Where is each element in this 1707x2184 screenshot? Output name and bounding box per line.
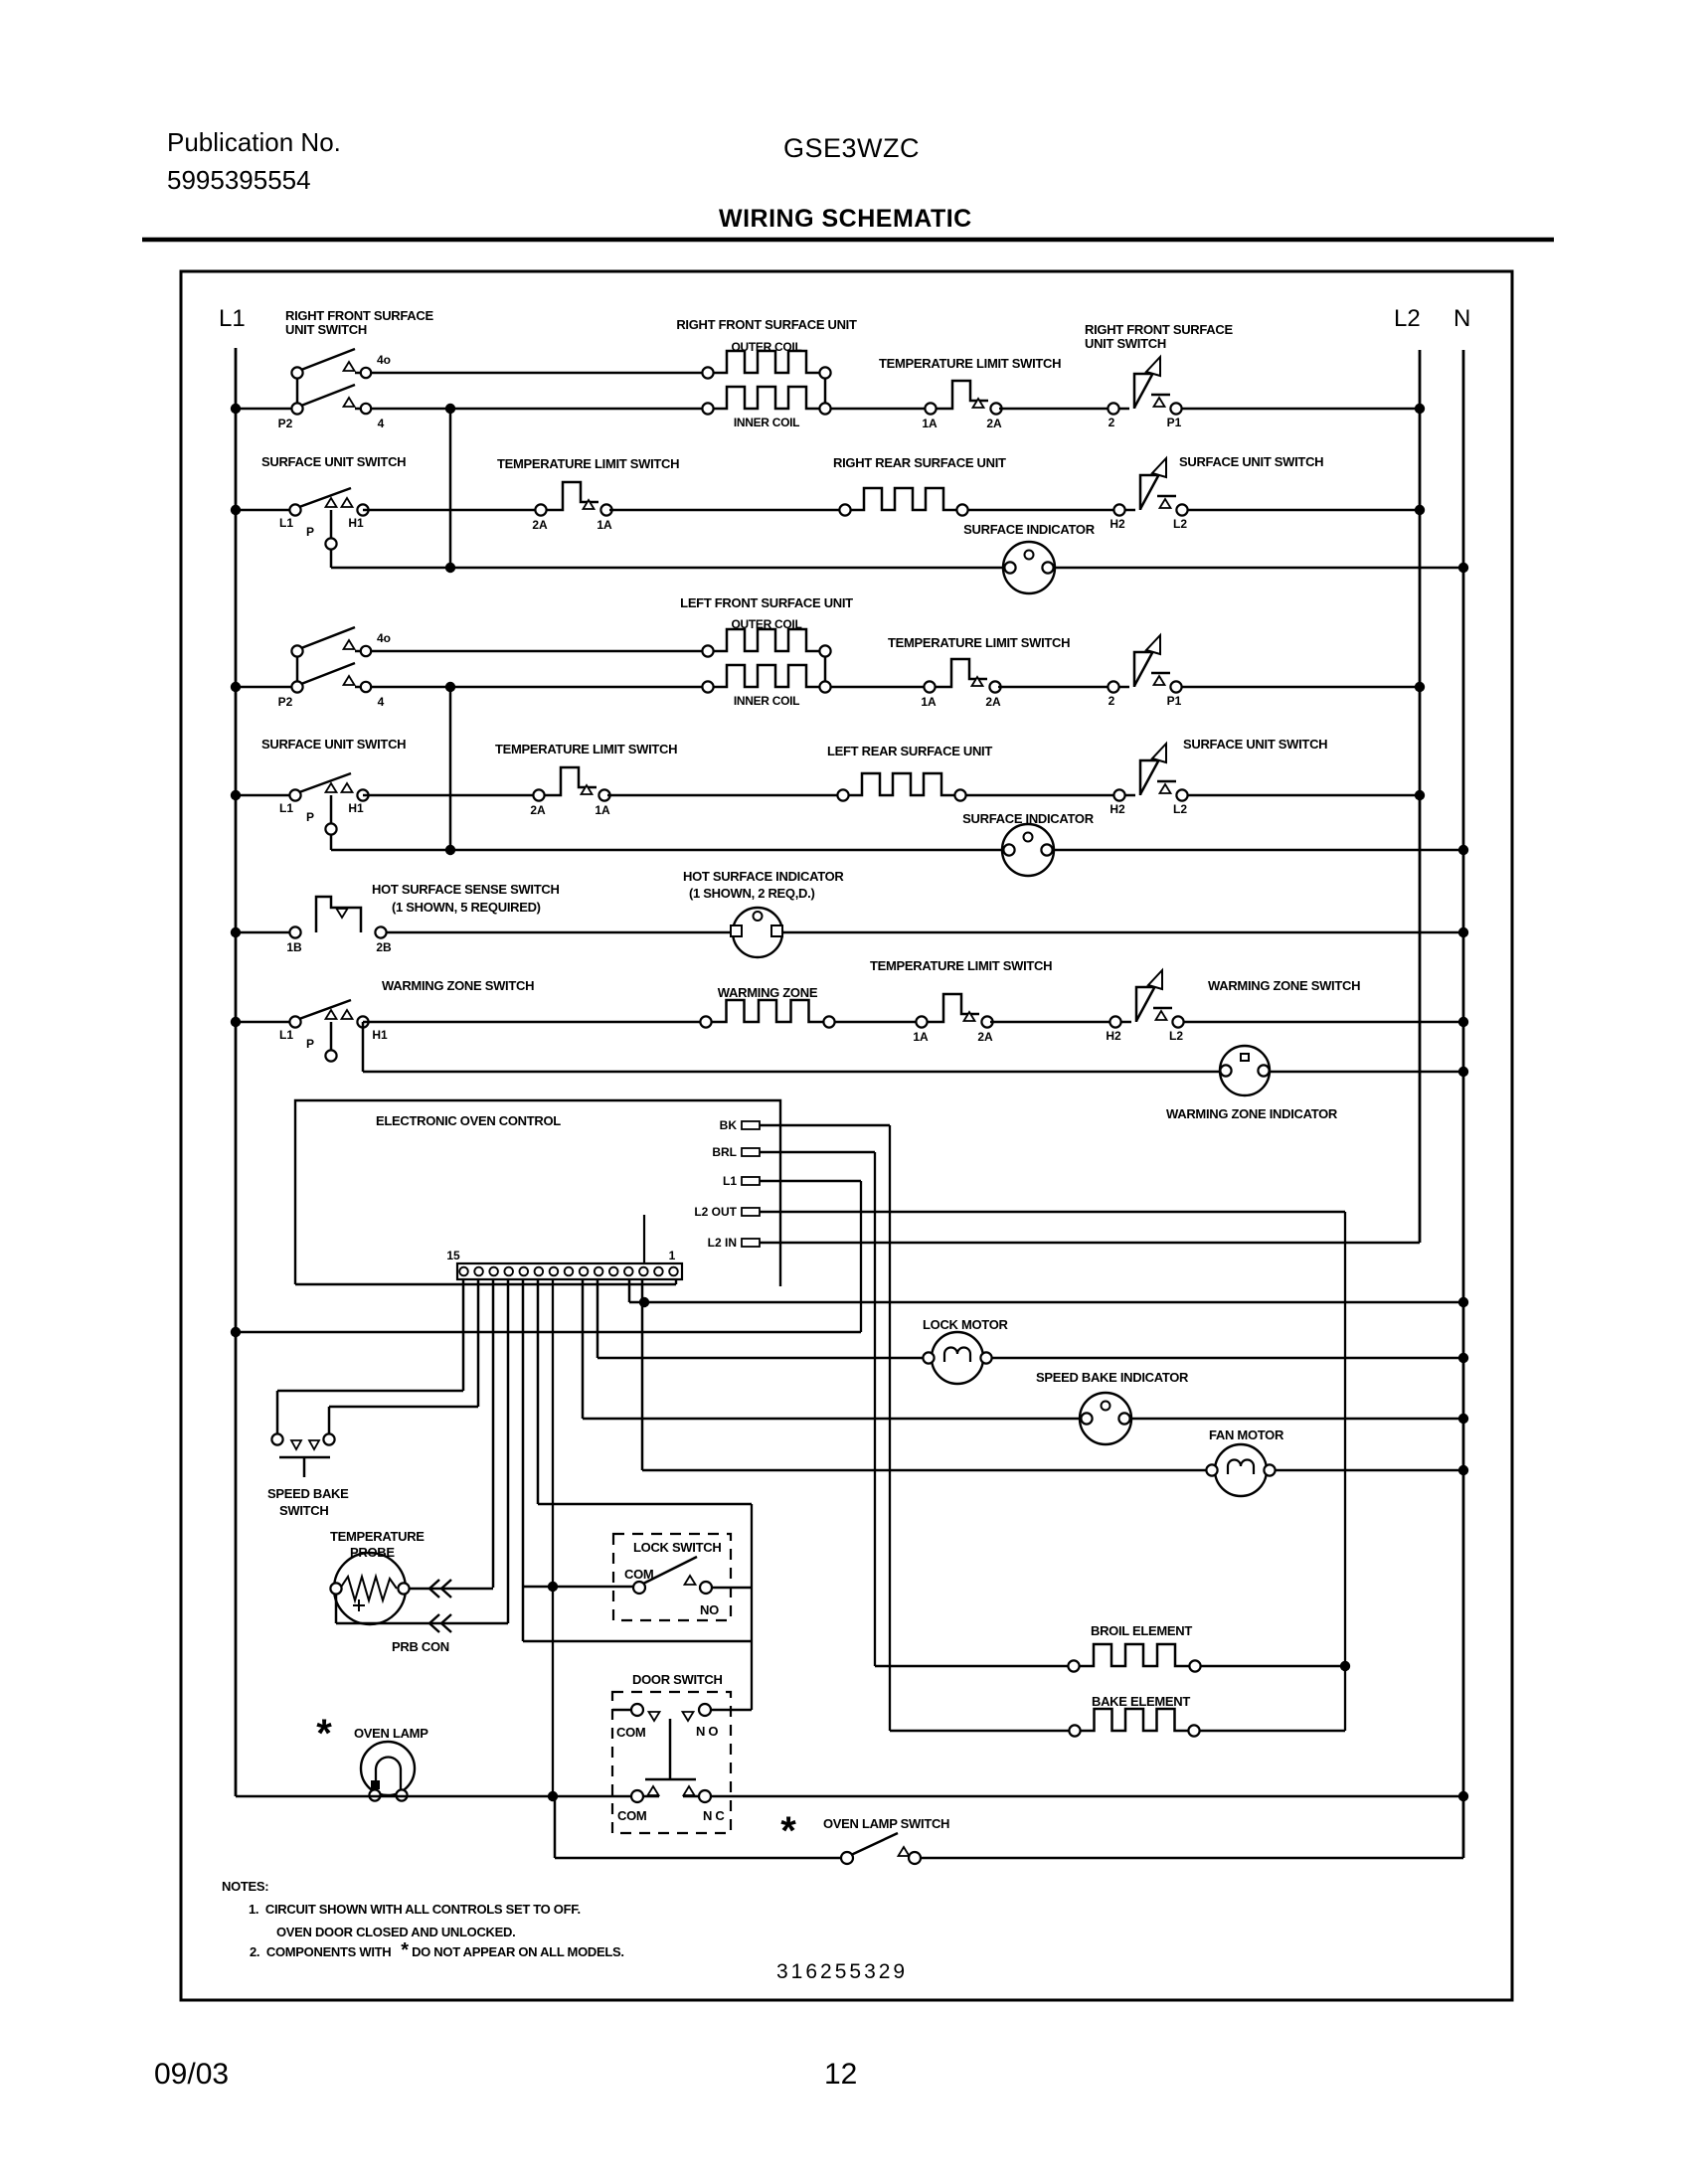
svg-text:L2: L2 bbox=[1173, 517, 1187, 531]
svg-text:SPEED BAKE INDICATOR: SPEED BAKE INDICATOR bbox=[1036, 1370, 1189, 1385]
svg-text:P1: P1 bbox=[1167, 694, 1182, 708]
svg-text:2A: 2A bbox=[977, 1030, 993, 1044]
svg-text:316255329: 316255329 bbox=[776, 1960, 908, 1983]
svg-text:1A: 1A bbox=[913, 1030, 929, 1044]
svg-text:1. CIRCUIT SHOWN WITH ALL CON: 1. CIRCUIT SHOWN WITH ALL CONTROLS SET T… bbox=[249, 1902, 581, 1917]
svg-text:SURFACE UNIT SWITCH: SURFACE UNIT SWITCH bbox=[261, 454, 406, 469]
svg-text:L1: L1 bbox=[279, 1028, 293, 1042]
svg-text:SWITCH: SWITCH bbox=[279, 1503, 328, 1518]
svg-text:P2: P2 bbox=[278, 695, 293, 709]
svg-text:H2: H2 bbox=[1106, 1029, 1121, 1043]
svg-text:COM: COM bbox=[616, 1725, 645, 1740]
svg-text:4: 4 bbox=[378, 417, 385, 430]
svg-text:OVEN DOOR CLOSED AND UNLOCKED.: OVEN DOOR CLOSED AND UNLOCKED. bbox=[276, 1925, 515, 1939]
svg-text:PROBE: PROBE bbox=[350, 1545, 395, 1560]
svg-text:INNER COIL: INNER COIL bbox=[734, 416, 799, 429]
svg-text:1A: 1A bbox=[921, 695, 937, 709]
svg-text:TEMPERATURE: TEMPERATURE bbox=[330, 1529, 425, 1544]
svg-text:NOTES:: NOTES: bbox=[222, 1879, 268, 1894]
svg-text:INNER COIL: INNER COIL bbox=[734, 694, 799, 708]
svg-text:H1: H1 bbox=[372, 1028, 388, 1042]
svg-text:LEFT REAR SURFACE UNIT: LEFT REAR SURFACE UNIT bbox=[827, 744, 992, 758]
svg-text:4o: 4o bbox=[377, 353, 391, 367]
svg-text:UNIT SWITCH: UNIT SWITCH bbox=[285, 322, 367, 337]
svg-text:H2: H2 bbox=[1110, 517, 1125, 531]
svg-text:P: P bbox=[306, 1037, 314, 1051]
svg-text:Publication No.: Publication No. bbox=[167, 127, 341, 157]
svg-text:2A: 2A bbox=[532, 518, 548, 532]
svg-text:OUTER COIL: OUTER COIL bbox=[732, 617, 802, 631]
svg-text:1A: 1A bbox=[595, 803, 610, 817]
svg-text:RIGHT FRONT SURFACE: RIGHT FRONT SURFACE bbox=[285, 308, 433, 323]
svg-text:TEMPERATURE LIMIT SWITCH: TEMPERATURE LIMIT SWITCH bbox=[879, 356, 1061, 371]
svg-text:LOCK SWITCH: LOCK SWITCH bbox=[633, 1540, 721, 1555]
svg-text:L1: L1 bbox=[279, 516, 293, 530]
svg-text:2A: 2A bbox=[530, 803, 546, 817]
svg-text:(1 SHOWN, 2 REQ,D.): (1 SHOWN, 2 REQ,D.) bbox=[689, 886, 814, 901]
svg-text:WIRING SCHEMATIC: WIRING SCHEMATIC bbox=[719, 205, 972, 233]
svg-text:SURFACE INDICATOR: SURFACE INDICATOR bbox=[963, 522, 1096, 537]
svg-text:HOT SURFACE INDICATOR: HOT SURFACE INDICATOR bbox=[683, 869, 844, 884]
svg-text:2: 2 bbox=[1109, 416, 1115, 429]
svg-text:LEFT FRONT SURFACE UNIT: LEFT FRONT SURFACE UNIT bbox=[680, 595, 853, 610]
svg-text:N C: N C bbox=[703, 1808, 725, 1823]
svg-text:BAKE ELEMENT: BAKE ELEMENT bbox=[1092, 1694, 1190, 1709]
svg-text:PRB CON: PRB CON bbox=[392, 1639, 449, 1654]
svg-text:SURFACE UNIT SWITCH: SURFACE UNIT SWITCH bbox=[1183, 737, 1327, 752]
svg-text:2A: 2A bbox=[986, 417, 1002, 430]
svg-text:RIGHT REAR SURFACE UNIT: RIGHT REAR SURFACE UNIT bbox=[833, 455, 1006, 470]
svg-text:P: P bbox=[306, 525, 314, 539]
svg-text:OVEN LAMP: OVEN LAMP bbox=[354, 1726, 428, 1741]
svg-text:SURFACE INDICATOR: SURFACE INDICATOR bbox=[962, 811, 1095, 826]
svg-text:12: 12 bbox=[824, 2058, 857, 2091]
svg-text:BROIL ELEMENT: BROIL ELEMENT bbox=[1091, 1623, 1192, 1638]
svg-text:TEMPERATURE LIMIT SWITCH: TEMPERATURE LIMIT SWITCH bbox=[888, 635, 1070, 650]
svg-text:TEMPERATURE LIMIT SWITCH: TEMPERATURE LIMIT SWITCH bbox=[497, 456, 679, 471]
svg-text:WARMING ZONE INDICATOR: WARMING ZONE INDICATOR bbox=[1166, 1106, 1338, 1121]
svg-text:DOOR SWITCH: DOOR SWITCH bbox=[632, 1672, 723, 1687]
svg-text:L2: L2 bbox=[1173, 802, 1187, 816]
svg-text:L1: L1 bbox=[279, 801, 293, 815]
svg-text:L2: L2 bbox=[1169, 1029, 1183, 1043]
svg-text:2A: 2A bbox=[985, 695, 1001, 709]
svg-text:UNIT SWITCH: UNIT SWITCH bbox=[1085, 336, 1166, 351]
svg-text:L2 OUT: L2 OUT bbox=[694, 1205, 737, 1219]
svg-text:OVEN LAMP SWITCH: OVEN LAMP SWITCH bbox=[823, 1816, 949, 1831]
svg-text:L2: L2 bbox=[1394, 305, 1421, 332]
svg-text:1A: 1A bbox=[597, 518, 612, 532]
svg-text:P2: P2 bbox=[278, 417, 293, 430]
svg-text:FAN MOTOR: FAN MOTOR bbox=[1209, 1428, 1284, 1442]
svg-text:L1: L1 bbox=[219, 305, 246, 332]
svg-text:H2: H2 bbox=[1110, 802, 1125, 816]
svg-text:RIGHT FRONT SURFACE: RIGHT FRONT SURFACE bbox=[1085, 322, 1233, 337]
svg-text:COM: COM bbox=[617, 1808, 646, 1823]
svg-text:OUTER COIL: OUTER COIL bbox=[732, 340, 802, 354]
svg-text:L2 IN: L2 IN bbox=[708, 1236, 737, 1250]
svg-text:5995395554: 5995395554 bbox=[167, 165, 311, 195]
svg-text:(1 SHOWN, 5 REQUIRED): (1 SHOWN, 5 REQUIRED) bbox=[392, 900, 541, 915]
svg-text:HOT SURFACE SENSE SWITCH: HOT SURFACE SENSE SWITCH bbox=[372, 882, 560, 897]
svg-text:4: 4 bbox=[378, 695, 385, 709]
svg-text:1A: 1A bbox=[922, 417, 938, 430]
svg-text:09/03: 09/03 bbox=[154, 2058, 229, 2091]
svg-text:15: 15 bbox=[446, 1249, 460, 1262]
svg-text:H1: H1 bbox=[348, 801, 364, 815]
svg-text:2: 2 bbox=[1109, 694, 1115, 708]
svg-text:WARMING ZONE SWITCH: WARMING ZONE SWITCH bbox=[1208, 978, 1360, 993]
svg-text:*: * bbox=[780, 1809, 796, 1853]
svg-text:TEMPERATURE LIMIT SWITCH: TEMPERATURE LIMIT SWITCH bbox=[495, 742, 677, 756]
svg-text:L1: L1 bbox=[723, 1174, 737, 1188]
svg-text:LOCK MOTOR: LOCK MOTOR bbox=[923, 1317, 1008, 1332]
svg-text:2B: 2B bbox=[376, 940, 392, 954]
svg-text:WARMING ZONE: WARMING ZONE bbox=[718, 985, 818, 1000]
svg-text:N O: N O bbox=[696, 1724, 718, 1739]
svg-text:1B: 1B bbox=[286, 940, 302, 954]
svg-text:SPEED BAKE: SPEED BAKE bbox=[267, 1486, 349, 1501]
svg-text:TEMPERATURE LIMIT SWITCH: TEMPERATURE LIMIT SWITCH bbox=[870, 958, 1052, 973]
svg-text:WARMING ZONE SWITCH: WARMING ZONE SWITCH bbox=[382, 978, 534, 993]
svg-text:NO: NO bbox=[700, 1602, 719, 1617]
svg-text:*: * bbox=[316, 1712, 332, 1756]
svg-text:P: P bbox=[306, 810, 314, 824]
svg-text:BRL: BRL bbox=[712, 1145, 737, 1159]
svg-text:P1: P1 bbox=[1167, 416, 1182, 429]
svg-text:H1: H1 bbox=[348, 516, 364, 530]
svg-text:1: 1 bbox=[669, 1249, 676, 1262]
svg-text:4o: 4o bbox=[377, 631, 391, 645]
svg-text:ELECTRONIC OVEN CONTROL: ELECTRONIC OVEN CONTROL bbox=[376, 1113, 561, 1128]
svg-text:SURFACE UNIT SWITCH: SURFACE UNIT SWITCH bbox=[1179, 454, 1323, 469]
svg-text:SURFACE UNIT SWITCH: SURFACE UNIT SWITCH bbox=[261, 737, 406, 752]
svg-text:RIGHT FRONT SURFACE UNIT: RIGHT FRONT SURFACE UNIT bbox=[676, 317, 857, 332]
svg-text:BK: BK bbox=[720, 1118, 738, 1132]
svg-text:GSE3WZC: GSE3WZC bbox=[783, 133, 920, 163]
svg-text:N: N bbox=[1453, 305, 1470, 332]
